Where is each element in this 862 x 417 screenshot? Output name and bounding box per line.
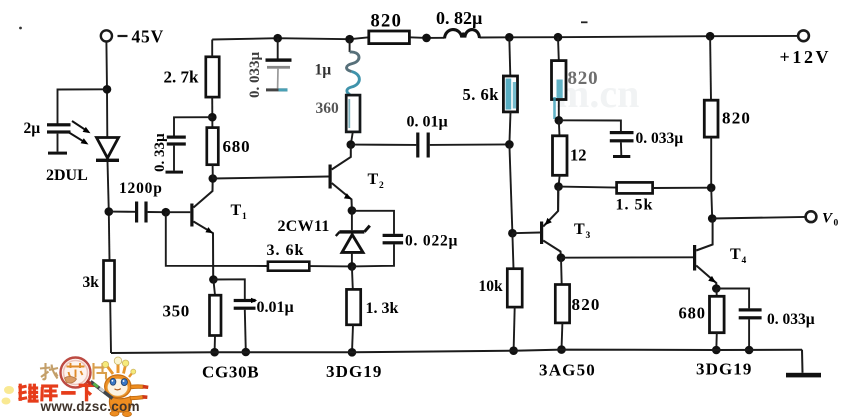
wire T4 base	[561, 256, 693, 258]
wire left column	[105, 42, 108, 138]
node T2 emitter	[348, 206, 357, 215]
wire 2.7k to 680	[211, 97, 213, 128]
svg-text:0. 033µ: 0. 033µ	[767, 311, 815, 328]
svg-text:3DG19: 3DG19	[326, 362, 383, 381]
svg-text:350: 350	[163, 302, 190, 321]
capacitor 0.033u third	[559, 120, 634, 158]
node 0.01u rail	[242, 348, 251, 357]
node T2 collector	[347, 140, 356, 149]
svg-text:2µ: 2µ	[24, 120, 41, 137]
resistor 820 T3 load	[555, 285, 569, 350]
resistor 1.5k	[559, 182, 712, 193]
node rail 820 mid	[554, 33, 563, 42]
svg-text:T: T	[574, 221, 585, 238]
node T3 base junction	[508, 229, 517, 238]
svg-text:www.dzsc.com: www.dzsc.com	[40, 399, 140, 414]
speck above rail	[581, 21, 588, 23]
wire bottom rail	[111, 350, 802, 353]
terminal -45V	[101, 30, 128, 41]
resistor 680 right	[710, 289, 725, 351]
node T3 emitter junction	[554, 182, 563, 191]
wire down to Vo node	[711, 188, 712, 219]
node 10k rail	[509, 346, 518, 355]
svg-text:T: T	[231, 202, 242, 219]
zener 2CW11	[336, 211, 370, 267]
svg-text:3k: 3k	[83, 274, 100, 291]
wire to Vo terminal	[712, 217, 805, 219]
svg-text:680: 680	[223, 137, 251, 156]
svg-text:3: 3	[586, 231, 591, 241]
wire photodiode to 1200p node	[108, 162, 109, 212]
capacitor 0.022u	[352, 211, 403, 267]
inductor 0.82u	[445, 30, 480, 39]
svg-text:820: 820	[568, 68, 599, 89]
transistor Q T2	[329, 145, 352, 211]
node rail 820 right	[706, 32, 715, 41]
svg-text:10k: 10k	[479, 278, 504, 295]
node below 680	[209, 174, 218, 183]
svg-text:T: T	[368, 171, 379, 188]
capacitor 2u	[47, 123, 71, 154]
wire 360 to T2 collector node	[351, 132, 353, 145]
svg-text:1200p: 1200p	[119, 180, 163, 197]
svg-text:360: 360	[316, 100, 340, 117]
node rail after 820	[422, 34, 431, 43]
svg-text:680: 680	[679, 304, 706, 323]
wire node to 3k	[108, 212, 111, 261]
node 820 right 1.5k junction	[707, 183, 716, 192]
wire 2.7k to rail	[211, 40, 213, 57]
svg-text:0. 33µ: 0. 33µ	[152, 133, 168, 172]
svg-text:12: 12	[570, 146, 587, 165]
svg-text:2. 7k: 2. 7k	[164, 68, 200, 87]
svg-text:0. 033µ: 0. 033µ	[247, 52, 263, 99]
svg-text:1µ: 1µ	[315, 62, 332, 79]
svg-text:820: 820	[371, 12, 403, 32]
capacitor 0.033u fourth	[716, 289, 761, 351]
svg-text:820: 820	[572, 295, 601, 314]
svg-text:5. 6k: 5. 6k	[463, 85, 500, 104]
terminal Vo	[806, 211, 817, 222]
inductor 1u	[347, 39, 360, 94]
watermark logo	[2, 357, 149, 417]
transistor Q T4	[693, 219, 716, 289]
svg-text:1. 5k: 1. 5k	[616, 197, 654, 214]
resistor 1.3k	[347, 266, 361, 352]
svg-text:0. 01µ: 0. 01µ	[407, 114, 448, 131]
wire rail right	[480, 36, 799, 38]
wire top rail	[212, 37, 369, 39]
wire T3 collector to 820	[560, 258, 563, 285]
svg-text:820: 820	[722, 109, 751, 128]
wire to 2u branch	[58, 89, 108, 124]
svg-text:45V: 45V	[132, 27, 165, 47]
terminal +12V	[798, 30, 809, 41]
node T1 emitter junction	[209, 275, 218, 284]
transistor Q T1	[190, 179, 213, 280]
capacitor 0.01u emitter bypass	[213, 279, 257, 351]
node T3 collector	[557, 253, 566, 262]
svg-text:2DUL: 2DUL	[46, 167, 88, 184]
resistor 350	[210, 280, 222, 352]
node 350 rail	[210, 348, 219, 357]
resistor 12	[553, 120, 568, 186]
node T1 base junction	[162, 208, 171, 217]
node B junction	[105, 207, 114, 216]
node cap4 rail	[745, 346, 754, 355]
svg-text:3AG50: 3AG50	[539, 361, 596, 380]
svg-text:2CW11: 2CW11	[278, 218, 330, 235]
node 680 rail	[712, 346, 721, 355]
resistor 820 top	[369, 31, 410, 44]
node rail 1u	[345, 35, 354, 44]
svg-text:+12V: +12V	[780, 47, 832, 67]
svg-text:4: 4	[742, 256, 747, 266]
node after coupling cap	[505, 140, 514, 149]
resistor 3k	[104, 261, 115, 301]
speck top-left	[19, 27, 22, 30]
ground	[786, 350, 821, 378]
node below zener	[348, 262, 357, 271]
capacitor C 1200p	[109, 202, 166, 223]
svg-text:CG30B: CG30B	[202, 363, 259, 382]
wire 3.6k to zener node	[309, 265, 352, 267]
wire to T2 base	[213, 177, 329, 179]
resistor 820 right	[704, 36, 718, 188]
wire T3 base	[512, 232, 540, 235]
svg-text:3. 6k: 3. 6k	[267, 242, 305, 259]
svg-text:2: 2	[379, 181, 384, 191]
node 1.3k rail	[348, 348, 357, 357]
resistor 3.6k	[268, 262, 309, 271]
svg-text:3DG19: 3DG19	[696, 360, 753, 379]
wire link down to T3 base node	[509, 144, 512, 233]
resistor 5.6k	[503, 37, 517, 144]
node below 820 mid	[555, 116, 564, 125]
capacitor 0.033u first	[266, 38, 292, 91]
node rail top first cap	[273, 34, 282, 43]
node Vo junction	[708, 214, 717, 223]
wire feedback down to 3.6k	[166, 212, 268, 266]
resistor 2.7k	[206, 57, 219, 97]
svg-text:0: 0	[834, 219, 839, 229]
wire T3 emitter vertical	[557, 187, 559, 211]
svg-text:0. 82µ: 0. 82µ	[436, 8, 483, 28]
svg-text:0. 033µ: 0. 033µ	[636, 130, 684, 147]
transistor Q T3	[540, 187, 561, 258]
capacitor 0.33u	[166, 136, 186, 174]
wire rail mid	[409, 36, 444, 39]
svg-text:0.01µ: 0.01µ	[257, 299, 294, 316]
svg-text:1. 3k: 1. 3k	[366, 300, 399, 317]
wire 0.33u branch	[174, 117, 212, 136]
resistor 820 mid	[552, 37, 567, 120]
svg-text:0. 022µ: 0. 022µ	[405, 233, 458, 250]
svg-text:1: 1	[242, 212, 247, 222]
node below 2.7k	[208, 113, 217, 122]
resistor 10k	[507, 233, 522, 351]
resistor 680	[207, 128, 219, 165]
wire T1 base	[166, 211, 191, 213]
capacitor 0.01u coupling	[351, 133, 510, 158]
node T4 emitter	[712, 284, 721, 293]
wire 680 bottom	[212, 165, 214, 179]
svg-text:T: T	[730, 246, 741, 263]
photodiode 2DUL	[69, 121, 119, 162]
resistor 360	[346, 95, 360, 132]
node rail 5.6k	[505, 33, 514, 42]
node 820 rail	[557, 345, 566, 354]
wire 3k to bottom rail	[109, 301, 112, 353]
node A junction	[103, 85, 112, 94]
